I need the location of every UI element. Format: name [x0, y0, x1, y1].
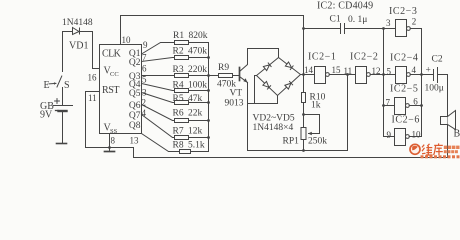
svg-text:Q2: Q2: [129, 58, 141, 68]
svg-text:8: 8: [111, 136, 116, 146]
svg-text:VT: VT: [230, 89, 243, 99]
svg-text:12k: 12k: [188, 127, 203, 137]
svg-text:R3: R3: [173, 65, 184, 75]
svg-text:47k: 47k: [188, 94, 203, 104]
svg-text:BL: BL: [454, 129, 460, 140]
svg-text:Q5: Q5: [129, 89, 141, 99]
svg-text:R9: R9: [218, 63, 229, 73]
svg-text:4: 4: [142, 108, 147, 118]
svg-text:5.1k: 5.1k: [188, 141, 205, 151]
svg-text:CC: CC: [110, 71, 119, 78]
svg-text:14: 14: [304, 65, 314, 75]
svg-text:C1: C1: [330, 15, 341, 25]
svg-text:1k: 1k: [311, 101, 321, 111]
svg-text:IC2−2: IC2−2: [350, 52, 378, 63]
svg-text:11: 11: [88, 93, 97, 103]
svg-text:15: 15: [332, 65, 342, 75]
svg-text:Q7: Q7: [129, 111, 141, 121]
svg-text:IC2−3: IC2−3: [389, 6, 417, 17]
svg-text:100μ: 100μ: [425, 84, 444, 94]
svg-text:9V: 9V: [40, 110, 53, 121]
svg-text:R7: R7: [173, 127, 184, 137]
svg-text:3: 3: [386, 18, 391, 28]
svg-text:C2: C2: [432, 55, 443, 65]
svg-text:10: 10: [412, 130, 422, 140]
svg-text:R8: R8: [173, 141, 184, 151]
svg-text:470k: 470k: [188, 47, 207, 57]
svg-text:5: 5: [142, 75, 147, 85]
svg-text:R4: R4: [173, 81, 184, 91]
svg-text:VD2~VD5: VD2~VD5: [253, 114, 295, 124]
svg-text:RST: RST: [102, 85, 119, 96]
svg-text:Q8: Q8: [129, 121, 141, 131]
svg-text:R6: R6: [173, 109, 184, 119]
svg-text:R5: R5: [173, 94, 184, 104]
svg-text:16: 16: [88, 73, 98, 83]
svg-text:Q6: Q6: [129, 101, 141, 111]
svg-text:6: 6: [413, 97, 418, 107]
svg-text:6: 6: [142, 64, 147, 74]
svg-text:5: 5: [387, 67, 392, 77]
svg-text:7: 7: [386, 98, 391, 108]
svg-text:IC2−4: IC2−4: [390, 53, 418, 64]
svg-text:9: 9: [143, 40, 148, 50]
svg-text:11: 11: [344, 66, 353, 76]
svg-text:+: +: [426, 66, 431, 76]
svg-text:IC2−6: IC2−6: [392, 115, 420, 126]
svg-text:RP1: RP1: [283, 137, 300, 147]
svg-text:9013: 9013: [225, 99, 244, 109]
svg-text:IC2: CD4049: IC2: CD4049: [317, 1, 373, 12]
svg-text:IC2−1: IC2−1: [308, 52, 336, 63]
svg-text:3: 3: [142, 88, 147, 98]
svg-text:1N4148×4: 1N4148×4: [253, 123, 294, 133]
svg-text:250k: 250k: [308, 137, 327, 147]
svg-text:1N4148: 1N4148: [62, 18, 93, 28]
svg-text:100k: 100k: [188, 81, 207, 91]
svg-text:9: 9: [387, 130, 392, 140]
svg-text:4: 4: [412, 65, 417, 75]
svg-text:13: 13: [130, 136, 140, 146]
svg-text:S: S: [64, 80, 70, 91]
svg-text:10: 10: [122, 35, 132, 45]
svg-text:220k: 220k: [188, 65, 207, 75]
svg-text:R1: R1: [173, 31, 184, 41]
svg-text:2: 2: [142, 98, 147, 108]
svg-text:820k: 820k: [189, 31, 208, 41]
svg-text:0. 1μ: 0. 1μ: [348, 15, 367, 25]
svg-text:SS: SS: [110, 128, 118, 135]
svg-text:2: 2: [412, 17, 417, 27]
svg-text:CLK: CLK: [102, 49, 122, 60]
svg-text:VD1: VD1: [69, 41, 88, 52]
svg-text:E: E: [44, 80, 50, 91]
svg-text:12: 12: [372, 66, 381, 76]
svg-text:R2: R2: [173, 47, 184, 57]
svg-text:7: 7: [142, 53, 147, 63]
svg-text:IC2−5: IC2−5: [390, 84, 418, 95]
svg-text:22k: 22k: [188, 109, 203, 119]
